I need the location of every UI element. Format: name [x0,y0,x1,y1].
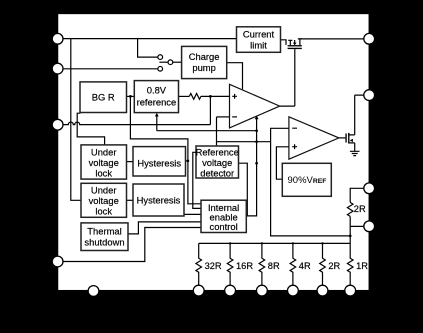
pin 6 [364,90,375,101]
wire BG R bottom to under voltage lock 1 top [77,113,104,145]
svg-text:2R: 2R [328,261,340,271]
svg-text:Hysteresis: Hysteresis [137,195,181,206]
wire VDD rail from pin VIN to current limit [58,38,237,40]
transistor Q1 PMOS pass device [288,39,302,49]
wire U1 output up to PMOS gate bar [280,49,295,106]
svg-text:limit: limit [250,39,267,50]
wire feedback line y130 [157,130,257,132]
pin 4 enable [52,256,63,267]
block 0.8V reference [134,81,178,113]
svg-text:2R: 2R [354,204,366,214]
svg-text:Charge: Charge [189,51,220,62]
wire RVD left output to enable control [193,152,201,208]
svg-text:voltage: voltage [202,157,232,168]
op-amp U2 comparator [289,117,339,159]
wire U2 minus rail down to ladder [271,142,351,236]
wire hysteresis 1 output [186,160,188,162]
node junction ladder top [349,235,352,238]
svg-text:Hysteresis: Hysteresis [137,157,181,168]
svg-text:Under: Under [91,146,117,157]
svg-text:lock: lock [95,168,112,179]
ground [350,151,360,155]
svg-text:pump: pump [192,62,215,73]
wire VDD branch to switch upper contact [138,39,158,58]
svg-text:Reference: Reference [196,146,239,157]
pin 7 [364,183,375,194]
resistor R2 2R [347,202,353,216]
pin 11 [225,285,236,296]
pin 13 [288,285,299,296]
wire current limit to PMOS gate [281,40,287,45]
wire VDD drop to under voltage lock 2 [71,39,81,201]
node junction feedback [255,129,258,132]
resistor 1R [347,243,368,285]
pin 12 [257,285,268,296]
svg-text:8R: 8R [268,261,280,271]
pin 9 bottom left [88,286,99,297]
wire enable arrow into U1 bottom [246,115,258,215]
resistor 32R [196,243,222,285]
svg-text:voltage: voltage [89,157,119,168]
wire reference node down to hysteresis 1 output rail into enable control [130,96,201,203]
wire arrow into 0.8V reference bottom [155,113,159,131]
wire U2 minus input [271,128,289,141]
wire resistor to U1 plus [201,95,230,97]
svg-text:detector: detector [200,167,234,178]
IC body [58,14,370,291]
block hysteresis 2 [133,184,184,216]
wire U1 minus input [217,116,230,118]
svg-text:shutdown: shutdown [84,237,124,248]
wire reference voltage detector output [239,163,248,216]
svg-text:voltage: voltage [89,195,119,206]
block 90% VREF [282,163,331,196]
wire line y141 [217,141,271,143]
block current limit [237,27,281,53]
wire pin2 to switch lower contact [58,68,158,70]
pin 8 [364,221,375,232]
wire BG R to 0.8V reference [127,95,135,97]
block BG R [80,82,127,113]
svg-text:control: control [210,221,238,232]
node junction hysteresis output [187,160,190,163]
pin 2 [52,63,63,74]
wire U2 output to NMOS gate [339,137,346,139]
svg-text:0.8V: 0.8V [147,85,167,96]
wire U2 plus to 90% VREF [276,147,289,179]
svg-text:16R: 16R [236,261,253,271]
wire vertical to reference voltage detector top [216,117,218,146]
op-amp U1 error amplifier [230,84,280,128]
pin 5 output top right [364,33,375,44]
svg-text:lock: lock [95,206,112,217]
block internal enable control [201,200,246,232]
wire pin7 to 2R resistor [350,188,369,202]
wire UVL2 to hysteresis 2 [127,199,134,201]
block under voltage lock 2 [81,183,127,217]
resistor 4R [290,243,311,285]
svg-text:4R: 4R [299,261,311,271]
wire UVL1 to hysteresis 1 [127,161,134,163]
wire 2R bottom to pin8 [350,216,369,226]
pin 14 [317,285,328,296]
wire NMOS drain to pin6 [355,95,370,135]
switch S1 contacts and common [158,55,182,71]
block thermal shutdown [81,223,128,251]
svg-text:Current: Current [243,28,275,39]
block reference voltage detector [196,146,239,178]
node junction at BG R wire [129,95,132,98]
pin 10 [193,285,204,296]
resistor 16R [227,243,253,285]
pin 1 VIN [52,33,63,44]
svg-text:1R: 1R [356,261,368,271]
node junction y141 [255,140,258,143]
node junction dots [209,95,212,98]
svg-text:32R: 32R [205,261,222,271]
wire NMOS source to ground [354,143,356,151]
transistor Q2 NMOS [345,133,354,143]
svg-text:BG R: BG R [92,91,115,102]
wire down to ladder bus [349,226,351,243]
block under voltage lock 1 [81,145,127,179]
wire charge pump output to op-amp U1 top [227,63,243,89]
wire enable pin4 to enable control [58,228,201,262]
block hysteresis 1 [133,147,186,176]
pin 3 feedback [52,119,63,130]
resistor R1 [189,94,201,100]
svg-text:Under: Under [91,184,117,195]
wire PMOS to output pin [300,38,369,40]
wire hysteresis 2 output to enable control [184,213,201,215]
wire junction drop to pin3 feedback wire [209,96,211,124]
svg-text:Thermal: Thermal [87,225,121,236]
block charge pump [182,46,227,78]
wire pin3 feedback with hops [58,122,211,125]
bus junction dots [229,242,231,244]
wire thermal shutdown output to enable control [128,222,201,234]
resistor 2R ladder [320,243,341,285]
pin 15 [345,285,356,296]
ladder bus [199,242,351,244]
node junction detector output [255,162,258,165]
resistor 8R [259,243,280,285]
svg-text:reference: reference [137,96,177,107]
wire 0.8V reference to resistor to U1 plus input [179,95,190,97]
